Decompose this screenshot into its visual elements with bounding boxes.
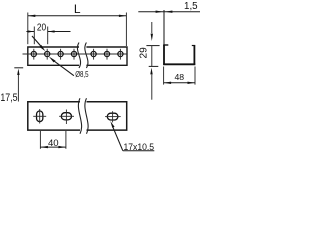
- dimension 20 arrow right (outside pointing left): [48, 30, 55, 32]
- svg-text:40: 40: [48, 138, 59, 149]
- dimension 20 arrow left (outside pointing right): [28, 30, 35, 32]
- dimension 48 line: [164, 82, 195, 84]
- dimension L extension line left: [27, 13, 29, 45]
- dimension 48 arrow right: [188, 82, 195, 84]
- dimension L arrow right: [119, 15, 126, 17]
- dimension 48 extension line right: [194, 67, 196, 85]
- hole 5: [91, 51, 96, 56]
- dimension 17,5 line: [17, 75, 19, 102]
- slot B (horizontal obround): [61, 113, 71, 120]
- slot C centerlines: [105, 116, 121, 118]
- svg-text:48: 48: [174, 72, 184, 82]
- dimension 40 arrow right: [58, 146, 65, 148]
- hole 6: [104, 51, 109, 56]
- dimension 29 top arrow (pointing down): [151, 34, 153, 41]
- leader lower segment: [54, 61, 74, 76]
- section left lip: [163, 44, 168, 46]
- dimension 40 arrow left: [41, 146, 48, 148]
- dimension 29 top tick: [146, 45, 159, 47]
- break line left (top view): [77, 43, 80, 69]
- break line right (bottom view): [85, 98, 88, 134]
- dimension 40 line: [40, 146, 66, 148]
- bottom view bar left segment: [28, 102, 80, 130]
- break line right (top view): [85, 43, 88, 69]
- dimension L line: [28, 15, 126, 17]
- dimension L extension line right: [125, 13, 127, 47]
- leader upper arrowhead: [39, 45, 45, 51]
- dimension 48 arrow left: [164, 82, 171, 84]
- dimension L arrow left: [28, 15, 35, 17]
- svg-text:1,5: 1,5: [184, 1, 198, 12]
- dimension 1,5 line: [138, 11, 200, 13]
- hole 7: [118, 51, 123, 56]
- section left wall extension (for 1,5): [163, 10, 165, 45]
- svg-text:20: 20: [37, 23, 47, 34]
- hole 2: [45, 51, 50, 56]
- svg-text:17x10.5: 17x10.5: [124, 142, 155, 152]
- dimension 40 extension line right: [65, 131, 67, 149]
- break line left (bottom view): [78, 98, 81, 134]
- svg-text:L: L: [74, 2, 81, 16]
- dimension 40 extension line left: [39, 131, 41, 149]
- dimension 29 mid line: [151, 46, 153, 67]
- slot C (horizontal obround): [107, 113, 118, 120]
- svg-text:29: 29: [138, 47, 149, 59]
- dimension 1,5 arrow left (pointing right at wall): [156, 11, 163, 13]
- leader for slot size arrowhead: [110, 121, 114, 128]
- section right wall: [193, 45, 195, 65]
- hole 3: [58, 51, 63, 56]
- dimension 20 extension line left: [33, 27, 35, 45]
- dimension 29 bottom tail: [151, 74, 153, 99]
- leader lower arrowhead: [49, 56, 56, 62]
- hole 4: [71, 51, 76, 56]
- slot A centerlines: [33, 115, 46, 117]
- dimension 1,5 arrow right (pointing left at wall): [165, 11, 172, 13]
- slot B centerlines: [59, 115, 74, 117]
- dimension 29 bottom arrow (pointing up): [150, 68, 152, 75]
- dimension 17,5 arrow (pointing up): [17, 69, 19, 75]
- svg-text:Ø8,5: Ø8,5: [75, 69, 89, 79]
- section left wall: [163, 45, 165, 65]
- dimension 29 top tail: [151, 22, 153, 33]
- section bottom: [163, 63, 195, 65]
- leader line for slot size: [113, 127, 123, 151]
- leader underline: [123, 150, 155, 152]
- dimension 17,5 tick: [14, 67, 23, 69]
- dimension 20 line right tail: [48, 31, 71, 33]
- svg-text:17,5: 17,5: [0, 92, 17, 104]
- bottom view bar right segment: [87, 102, 127, 130]
- dimension 48 extension line left: [163, 67, 165, 85]
- dimension 20 line left tail: [26, 31, 34, 33]
- dimension 29 bottom tick: [149, 65, 159, 67]
- slot A (vertical obround): [37, 111, 43, 122]
- top view bar right segment: [86, 47, 127, 65]
- leader upper segment for hole dia: [32, 36, 42, 48]
- section right lip: [192, 45, 195, 47]
- dimension 20 extension line right: [47, 27, 49, 45]
- top view bar left segment: [28, 47, 79, 65]
- centerline of top bar: [23, 53, 127, 55]
- hole 1: [31, 51, 36, 56]
